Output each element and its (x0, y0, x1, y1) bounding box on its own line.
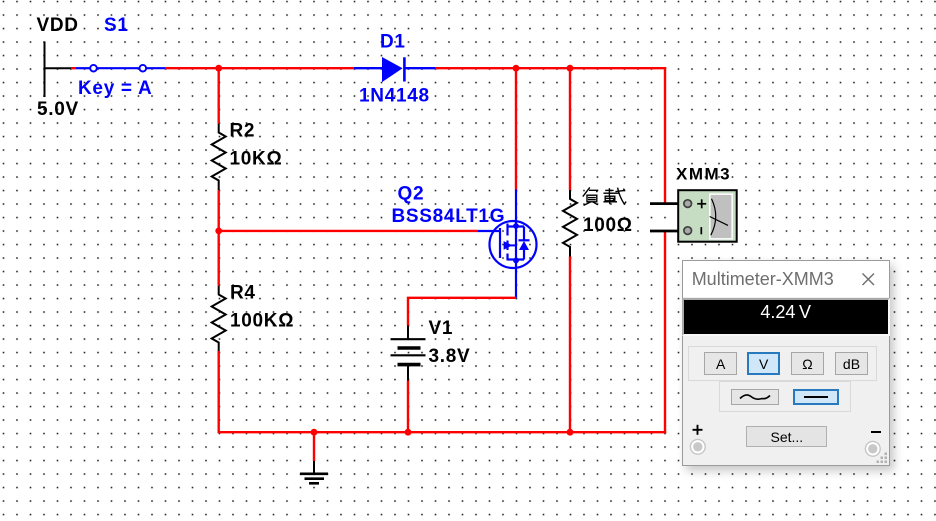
pin + mark (697, 199, 706, 234)
junction load top (567, 65, 574, 72)
wire XMM3 plus drop (664, 67, 666, 204)
groupbox modes (688, 346, 878, 380)
wire Q2 source corner (408, 298, 516, 326)
resistor load (负载) (569, 68, 571, 190)
diode D1 (354, 57, 436, 82)
junction top-left (215, 65, 222, 72)
wire Q2 drain red (515, 68, 517, 189)
wire ground stub red (313, 432, 315, 461)
wire top rail right (435, 67, 666, 69)
switch S1 (76, 65, 165, 72)
junction gate node (215, 228, 222, 235)
wire red stub VDD to switch (71, 67, 76, 69)
resistor R4 (212, 286, 226, 351)
svg-text:Q2: Q2 (398, 184, 425, 205)
svg-text:1N4148: 1N4148 (359, 86, 430, 107)
svg-text:10KΩ: 10KΩ (230, 149, 283, 170)
svg-text:Key = A: Key = A (78, 78, 152, 99)
junction V1 bottom (405, 429, 412, 436)
resize grip (876, 452, 888, 464)
svg-text:R2: R2 (230, 121, 256, 142)
svg-text:V1: V1 (429, 318, 454, 339)
label - (871, 431, 881, 433)
wire bottom rail (218, 431, 667, 433)
svg-text:BSS84LT1G: BSS84LT1G (392, 206, 506, 227)
node VDD power symbol (45, 42, 72, 98)
button Set... (746, 426, 827, 447)
button sine (731, 389, 779, 405)
display (682, 298, 890, 336)
button Ω (791, 352, 824, 375)
battery V1 (391, 326, 426, 381)
svg-text:S1: S1 (104, 15, 129, 36)
svg-text:100Ω: 100Ω (583, 215, 633, 236)
wire gate horizontal (219, 230, 478, 232)
terminal circle right (864, 440, 882, 458)
wire R2 bottom to gate node (217, 190, 219, 286)
svg-text:XMM3: XMM3 (676, 164, 731, 183)
svg-text:5.0V: 5.0V (37, 99, 79, 120)
wire stub minus (650, 230, 679, 233)
window title (683, 261, 889, 297)
terminal circle left (689, 438, 707, 456)
XMM3 instrument icon (650, 190, 737, 242)
junction load bottom (567, 429, 574, 436)
wire V1 bottom (407, 381, 409, 433)
groupbox waveform (719, 381, 851, 413)
junction Q2 drain (513, 65, 520, 72)
transistor Q2 BSS84LT1G (478, 190, 537, 298)
button DC (selected) (793, 389, 839, 405)
resistor R2 (212, 124, 226, 191)
wire R4 bottom (217, 351, 219, 432)
pin - mark (700, 227, 702, 234)
wire top rail left (165, 67, 354, 69)
wire R2 top (217, 68, 219, 123)
svg-text:R4: R4 (230, 283, 256, 304)
svg-text:3.8V: 3.8V (429, 346, 471, 367)
wire XMM3 minus drop (664, 231, 666, 433)
button A (704, 352, 736, 375)
wire stub plus (650, 202, 679, 205)
svg-text:100KΩ: 100KΩ (230, 311, 294, 332)
svg-text:VDD: VDD (37, 15, 79, 36)
button dB (835, 352, 868, 375)
label 负载 (drawn glyphs) (583, 187, 626, 205)
label + (692, 424, 704, 436)
svg-text:D1: D1 (380, 32, 406, 53)
close X (861, 272, 876, 287)
button V (selected) (747, 352, 780, 375)
ground (300, 461, 328, 483)
junction ground (311, 429, 318, 436)
multimeter window (682, 260, 890, 466)
